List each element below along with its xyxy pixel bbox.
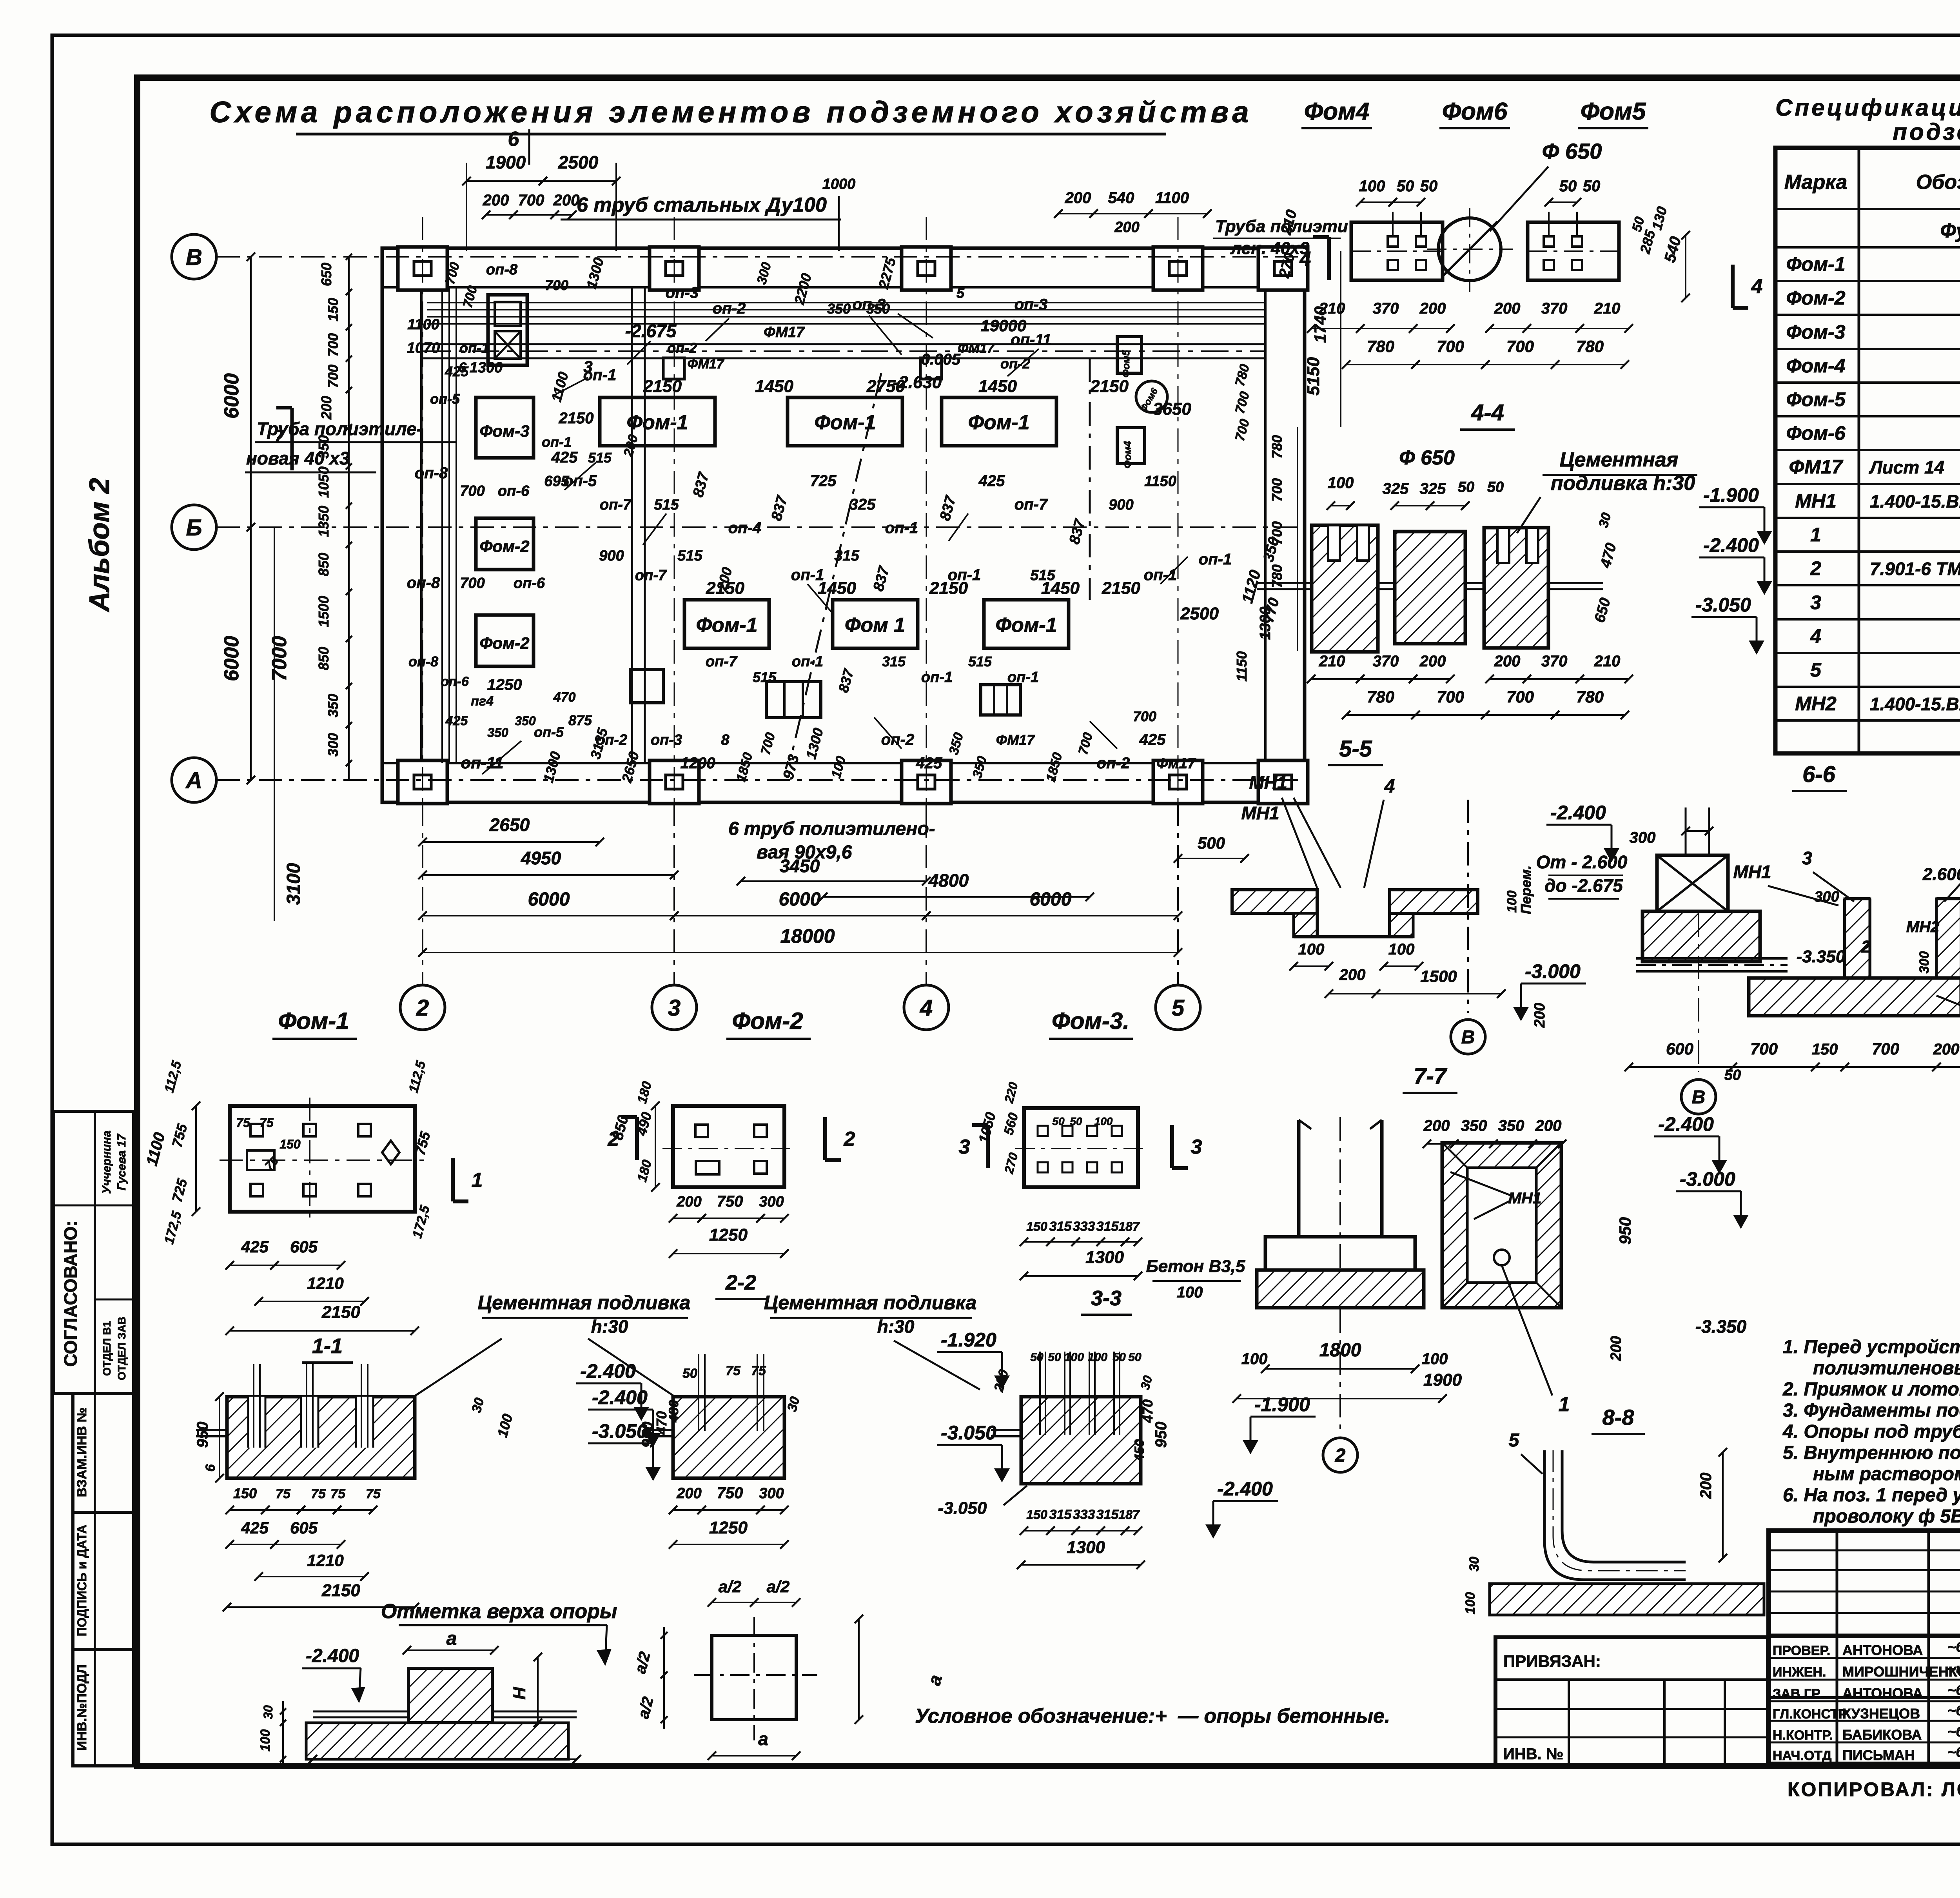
svg-text:780: 780: [1269, 435, 1285, 459]
svg-text:900: 900: [599, 548, 624, 564]
svg-text:780: 780: [1367, 337, 1394, 356]
section 8-8 dim 30: [1463, 1557, 1482, 1614]
label 6 trub stalnyh: [561, 194, 841, 220]
label 3-3: [1081, 1287, 1132, 1315]
svg-text:Лист 14: Лист 14: [1869, 457, 1944, 477]
label otmetka verha opory: [381, 1600, 617, 1666]
Фом-2 left dims: [610, 1080, 660, 1192]
foundation Фом-2 upper: [476, 518, 534, 570]
label F650 top: [1490, 139, 1602, 231]
svg-text:ПРОВЕР.: ПРОВЕР.: [1773, 1643, 1830, 1658]
svg-text:оп-6: оп-6: [441, 674, 469, 689]
section 2-2 side dims: [639, 1400, 681, 1448]
svg-text:-1.920: -1.920: [941, 1329, 996, 1351]
svg-text:7.901-6 ТМ131.05.00: 7.901-6 ТМ131.05.00: [1870, 559, 1960, 579]
svg-text:-2.630: -2.630: [893, 373, 942, 392]
svg-text:3100: 3100: [283, 863, 304, 905]
svg-text:425: 425: [551, 449, 578, 466]
svg-text:оп-1: оп-1: [792, 653, 823, 670]
svg-text:1150: 1150: [1234, 651, 1250, 681]
spec row Фом-2: [1786, 287, 1960, 309]
svg-text:700: 700: [460, 483, 485, 499]
svg-text:Фом-1: Фом-1: [278, 1008, 349, 1034]
dim top right 200 540 1100: [1054, 189, 1212, 236]
svg-text:200: 200: [1608, 1336, 1624, 1361]
Фом-2 plan: [662, 1106, 796, 1187]
section 8-8 label 5: [1509, 1430, 1543, 1474]
svg-text:6000: 6000: [220, 636, 243, 681]
svg-text:210: 210: [1594, 653, 1621, 670]
svg-text:Фом4: Фом4: [1122, 441, 1133, 468]
svg-text:1.400-15.В1 120-23: 1.400-15.В1 120-23: [1870, 694, 1960, 714]
svg-text:350: 350: [827, 301, 851, 317]
svg-text:а: а: [758, 1729, 768, 1749]
svg-text:оп-3: оп-3: [1014, 296, 1047, 313]
svg-text:187: 187: [1118, 1508, 1140, 1522]
Фом-2 bottom dims: [669, 1193, 789, 1258]
svg-text:350: 350: [1461, 1117, 1487, 1134]
svg-text:оп-2: оп-2: [667, 340, 697, 356]
section 8-8 label: [1592, 1405, 1645, 1434]
label 2-2: [715, 1271, 766, 1299]
svg-text:4950: 4950: [521, 848, 561, 868]
svg-text:50: 50: [1583, 178, 1601, 195]
dim right chain: [1234, 251, 1341, 682]
svg-text:~б: ~б: [1947, 1682, 1960, 1698]
svg-text:подземного хозяйства.: подземного хозяйства.: [1893, 119, 1960, 145]
svg-text:оп-2: оп-2: [881, 731, 914, 748]
svg-text:515: 515: [753, 669, 777, 685]
svg-text:210: 210: [1594, 300, 1621, 317]
svg-text:30: 30: [261, 1705, 275, 1719]
section 3-3 side dims: [1132, 1399, 1170, 1462]
section 2-2 top dims: [682, 1363, 803, 1413]
svg-text:6. На поз. 1 перед укладкой на: 6. На поз. 1 перед укладкой навить и при…: [1783, 1485, 1960, 1506]
svg-text:НАЧ.ОТД: НАЧ.ОТД: [1773, 1748, 1831, 1763]
svg-text:4: 4: [1751, 275, 1763, 298]
svg-text:Фундаменты под оборудование.: Фундаменты под оборудование.: [1940, 220, 1960, 242]
spec row 4: [1810, 625, 1960, 647]
svg-text:3: 3: [668, 995, 681, 1021]
section 4-4 top dims: [1327, 446, 1504, 510]
svg-text:325: 325: [849, 496, 876, 513]
svg-text:333: 333: [1073, 1507, 1095, 1522]
signature rows: [1773, 1639, 1960, 1763]
label MN1 corner: [1241, 803, 1279, 823]
section 4-4 pier 2: [1395, 532, 1465, 644]
foundation Фом-1 top 1: [600, 397, 715, 446]
svg-text:2: 2: [1861, 937, 1871, 956]
spec table grid: [1775, 148, 1960, 753]
spec row 1: [1810, 524, 1960, 546]
svg-text:МИРОШНИЧЕНКО: МИРОШНИЧЕНКО: [1842, 1664, 1960, 1680]
section 6-6 pipe: [1636, 958, 1788, 971]
section 5-5 elevations: [1504, 802, 1628, 914]
svg-text:-2.400: -2.400: [592, 1386, 648, 1408]
section mark 4 left: [1299, 237, 1329, 280]
svg-text:50: 50: [1458, 479, 1474, 495]
dims sides fom456: [1276, 205, 1690, 302]
svg-text:МН1: МН1: [1508, 1190, 1541, 1207]
svg-text:-2.400: -2.400: [580, 1360, 636, 1382]
svg-text:2150: 2150: [321, 1303, 360, 1322]
foundation Фом-3: [476, 397, 534, 458]
svg-text:ПОДПИСЬ и ДАТА: ПОДПИСЬ и ДАТА: [75, 1525, 89, 1637]
svg-text:1100: 1100: [1155, 189, 1189, 207]
svg-text:Фом-3.: Фом-3.: [1052, 1008, 1129, 1034]
svg-text:а: а: [446, 1628, 457, 1649]
svg-text:Н.КОНТР.: Н.КОНТР.: [1773, 1728, 1833, 1743]
Фом-1 bottom dims: [225, 1238, 419, 1335]
svg-text:АНТОНОВА: АНТОНОВА: [1842, 1642, 1923, 1658]
svg-text:ФМ17: ФМ17: [764, 324, 805, 341]
foundation Фом-1 top 2: [788, 397, 902, 446]
spec row ФМ17: [1789, 456, 1960, 478]
section 2-2 block: [643, 1354, 784, 1478]
privyazan box: [1495, 1637, 1768, 1766]
svg-text:370: 370: [1373, 300, 1399, 317]
svg-text:Фом-1: Фом-1: [995, 614, 1057, 637]
label 1-1: [302, 1334, 353, 1363]
svg-text:700: 700: [1269, 478, 1285, 502]
svg-text:КОПИРОВАЛ: ЛОГИНОВА: КОПИРОВАЛ: ЛОГИНОВА: [1788, 1778, 1960, 1800]
pipe run vertical: [632, 289, 645, 763]
svg-text:605: 605: [290, 1238, 318, 1256]
svg-text:оп-1: оп-1: [791, 566, 824, 584]
svg-text:ИНЖЕН.: ИНЖЕН.: [1773, 1665, 1826, 1680]
dim left 6000 6000: [220, 252, 304, 921]
svg-text:В: В: [186, 245, 202, 270]
svg-text:3: 3: [1810, 592, 1821, 613]
dims below fom456 row1: [1307, 300, 1633, 333]
svg-text:470: 470: [553, 690, 576, 705]
svg-text:695: 695: [544, 473, 569, 490]
svg-text:Фом6: Фом6: [1442, 98, 1508, 125]
svg-text:150: 150: [1026, 1508, 1047, 1522]
svg-text:950: 950: [1152, 1422, 1170, 1448]
svg-text:а/2: а/2: [767, 1577, 789, 1596]
svg-text:Н: Н: [510, 1687, 529, 1700]
svg-text:ИНВ. №: ИНВ. №: [1503, 1746, 1563, 1763]
section 4-4 bottom dims: [1307, 653, 1633, 719]
svg-text:оп-1: оп-1: [542, 434, 572, 450]
svg-text:7-7: 7-7: [1414, 1063, 1448, 1089]
svg-text:оп-1: оп-1: [921, 669, 953, 686]
svg-text:оп-8: оп-8: [408, 653, 438, 670]
svg-text:50: 50: [1559, 178, 1577, 195]
svg-text:200: 200: [1697, 1473, 1715, 1499]
svg-text:АНТОНОВА: АНТОНОВА: [1842, 1685, 1923, 1701]
svg-text:100: 100: [1241, 1350, 1268, 1368]
svg-text:50: 50: [1070, 1115, 1082, 1127]
svg-text:1500: 1500: [316, 596, 332, 627]
section 5-5 axis: [1451, 800, 1485, 1054]
svg-text:А: А: [185, 768, 202, 793]
svg-text:ным раствором.: ным раствором.: [1813, 1464, 1960, 1484]
general notes: [1782, 1337, 1960, 1527]
svg-text:8: 8: [721, 732, 730, 748]
section 7-7 base: [1257, 1270, 1424, 1308]
svg-text:оп-5: оп-5: [534, 724, 564, 740]
label Fom4: [1301, 98, 1372, 128]
svg-text:1210: 1210: [307, 1551, 343, 1570]
svg-text:725: 725: [810, 472, 837, 490]
label Фом-2 detail: [726, 1008, 811, 1039]
section 7-7 dims: [1232, 1340, 1462, 1454]
svg-text:100: 100: [1088, 1351, 1107, 1364]
section mark 3 left: [959, 1125, 988, 1168]
svg-text:Гусева 17: Гусева 17: [115, 1134, 128, 1190]
svg-text:МН1: МН1: [1733, 862, 1771, 882]
pipe drop right: [1089, 358, 1091, 600]
pipe run diagonal: [790, 373, 881, 760]
svg-text:2. Приямок и лоток выполнить и: 2. Приямок и лоток выполнить из бетона к…: [1782, 1379, 1960, 1400]
svg-text:200: 200: [1532, 1003, 1548, 1028]
svg-text:2: 2: [844, 1128, 855, 1150]
section 5-5 labels: [1249, 772, 1395, 888]
svg-text:325: 325: [1420, 480, 1446, 497]
svg-text:Ф 650: Ф 650: [1542, 139, 1602, 163]
svg-text:50: 50: [682, 1366, 697, 1381]
spec row Фом-3: [1786, 321, 1960, 343]
svg-text:350: 350: [487, 726, 508, 740]
svg-text:780: 780: [1576, 337, 1604, 356]
svg-text:700: 700: [1437, 337, 1464, 356]
svg-text:18000: 18000: [780, 925, 835, 947]
foundation Фом-1 top 3: [942, 397, 1056, 446]
svg-text:3: 3: [583, 357, 592, 376]
svg-text:6 труб полиэтилено-: 6 труб полиэтилено-: [728, 818, 935, 839]
svg-text:200: 200: [1339, 966, 1366, 983]
svg-text:2500: 2500: [1180, 604, 1219, 623]
section mark 3 right: [1172, 1125, 1202, 1168]
svg-text:1900: 1900: [486, 152, 526, 172]
svg-text:100: 100: [258, 1729, 273, 1752]
svg-text:оп-5: оп-5: [430, 391, 460, 407]
box Фом4: [1117, 428, 1145, 468]
small block ФМ17 a: [630, 670, 663, 703]
svg-text:оп-7: оп-7: [706, 653, 738, 670]
label Фом-1 detail: [272, 1008, 357, 1039]
svg-text:1250: 1250: [487, 676, 522, 693]
section 7-7 cap: [1265, 1237, 1415, 1270]
svg-text:1300: 1300: [1085, 1248, 1124, 1267]
svg-text:оп-8: оп-8: [415, 465, 448, 482]
svg-text:БАБИКОВА: БАБИКОВА: [1842, 1727, 1922, 1743]
svg-text:Фом-2: Фом-2: [480, 537, 530, 555]
small square a: [663, 358, 684, 379]
section mark 7 left: [274, 408, 292, 470]
svg-text:100: 100: [1064, 1351, 1084, 1364]
section 6-6 elevations: [1513, 843, 1960, 1028]
svg-text:515: 515: [968, 653, 992, 670]
svg-text:50: 50: [1724, 1067, 1741, 1083]
svg-text:оп-2: оп-2: [1000, 356, 1030, 372]
svg-text:~б: ~б: [1947, 1724, 1960, 1740]
section 3-3 block: [991, 1352, 1141, 1484]
section 3-3 top dims: [991, 1351, 1155, 1394]
svg-text:От - 2.600: От - 2.600: [1536, 852, 1628, 872]
svg-text:-3.000: -3.000: [1525, 960, 1581, 982]
svg-text:оп-8: оп-8: [486, 261, 518, 278]
dim bottom 6000x3: [418, 889, 1182, 920]
svg-text:оп-1: оп-1: [1007, 669, 1039, 686]
title block grid: [1769, 1531, 1960, 1764]
podpis data box: [73, 1512, 134, 1649]
svg-text:ФМ17: ФМ17: [996, 732, 1036, 748]
svg-text:ИНВ.№ПОДЛ: ИНВ.№ПОДЛ: [74, 1664, 89, 1750]
dim 1000 top: [822, 176, 856, 251]
svg-text:150: 150: [1812, 1041, 1838, 1058]
steel pipes run: [427, 303, 1266, 324]
svg-text:850: 850: [316, 553, 332, 576]
svg-text:150: 150: [233, 1485, 257, 1501]
svg-text:2500: 2500: [558, 152, 599, 172]
section 5-5 slab left: [1232, 890, 1317, 913]
svg-text:1300: 1300: [470, 359, 503, 376]
svg-text:50: 50: [1112, 1351, 1126, 1364]
label Fom5: [1578, 98, 1648, 128]
spec row 3: [1810, 592, 1960, 613]
svg-text:210: 210: [1319, 300, 1345, 317]
svg-text:ПИСЬМАН: ПИСЬМАН: [1842, 1747, 1915, 1763]
svg-text:СОГЛАСОВАНО:: СОГЛАСОВАНО:: [60, 1220, 81, 1366]
svg-text:370: 370: [1373, 653, 1399, 670]
svg-text:150: 150: [279, 1137, 301, 1151]
vzam inv box: [73, 1394, 134, 1512]
svg-text:2150: 2150: [321, 1581, 360, 1600]
dim chain top 200 700 200: [482, 192, 579, 219]
svg-text:Фом-1: Фом-1: [814, 411, 876, 434]
svg-text:оп-11: оп-11: [1011, 331, 1051, 348]
svg-text:Фом-3: Фом-3: [1786, 321, 1845, 343]
svg-text:200: 200: [1114, 219, 1139, 236]
poly pipes run vertical: [442, 289, 456, 763]
dim bottom 4950: [418, 848, 679, 879]
svg-text:вая 90х9,6: вая 90х9,6: [757, 842, 852, 863]
spec table title: [1775, 94, 1960, 145]
Фом-1 inner dims: [236, 1116, 301, 1173]
svg-text:200: 200: [1933, 1041, 1960, 1058]
svg-text:150: 150: [325, 298, 341, 321]
label Fom6: [1439, 98, 1510, 128]
svg-text:Схема расположения элементов п: Схема расположения элементов подземного …: [209, 96, 1252, 129]
album label: [84, 478, 115, 612]
section 1-1 side dims: [194, 1392, 224, 1482]
svg-text:МН1: МН1: [1249, 772, 1287, 793]
svg-text:Фом-5: Фом-5: [1786, 388, 1846, 410]
svg-text:оп-7: оп-7: [600, 497, 632, 513]
section 7-7 lower elevation: [1205, 1478, 1278, 1539]
svg-text:h:30: h:30: [877, 1316, 915, 1337]
detail Fom4-6-5 circle: [1427, 208, 1513, 292]
svg-text:— опоры бетонные.: — опоры бетонные.: [1178, 1705, 1390, 1727]
foundation Фом-1 bottom 3: [984, 600, 1069, 648]
svg-text:315: 315: [1049, 1507, 1072, 1522]
svg-text:МН1: МН1: [1795, 490, 1837, 512]
svg-text:50: 50: [1487, 479, 1504, 495]
pit plan anchor: [1494, 1250, 1570, 1416]
privyazan label: [1503, 1652, 1601, 1670]
svg-text:500: 500: [1198, 834, 1225, 852]
pit plan elevations: [1608, 1113, 1749, 1361]
section mark 1: [453, 1158, 483, 1201]
svg-text:2: 2: [416, 995, 429, 1021]
svg-text:200: 200: [676, 1194, 701, 1210]
svg-text:6000: 6000: [220, 373, 243, 419]
svg-text:3: 3: [959, 1136, 970, 1158]
svg-text:-2.400: -2.400: [1703, 534, 1759, 556]
svg-text:100: 100: [1094, 1115, 1113, 1127]
svg-text:1000: 1000: [822, 176, 856, 192]
label truba polyethylene right: [1213, 217, 1348, 258]
svg-text:700: 700: [518, 192, 544, 209]
svg-text:4-4: 4-4: [1471, 400, 1504, 425]
section 4-4 pier 1: [1312, 525, 1378, 652]
section mark 2 right: [825, 1117, 855, 1160]
small square b: [920, 358, 942, 379]
svg-text:1500: 1500: [1420, 967, 1457, 985]
svg-text:Обозначение: Обозначение: [1916, 171, 1960, 194]
svg-text:оп-4: оп-4: [728, 519, 761, 537]
svg-text:210: 210: [1319, 653, 1345, 670]
svg-text:-2.400: -2.400: [1550, 802, 1606, 824]
svg-text:200: 200: [1423, 1117, 1450, 1134]
svg-text:а/2: а/2: [719, 1577, 741, 1596]
svg-text:5: 5: [1509, 1430, 1520, 1451]
svg-text:700: 700: [1872, 1040, 1899, 1058]
svg-text:6000: 6000: [528, 889, 570, 910]
svg-text:Отметка верха опоры: Отметка верха опоры: [381, 1600, 617, 1623]
svg-text:300: 300: [325, 733, 341, 757]
label truba poly left: [245, 419, 457, 472]
section 5-5 slab right: [1390, 890, 1478, 913]
section 6-6 labels: [1630, 827, 1960, 1038]
svg-text:1250: 1250: [709, 1225, 748, 1245]
svg-text:2150: 2150: [643, 377, 682, 396]
svg-text:300: 300: [1630, 829, 1656, 846]
dims above left footing: [1356, 178, 1600, 207]
svg-text:700: 700: [325, 365, 341, 388]
svg-text:оп-1: оп-1: [459, 340, 489, 356]
svg-text:50: 50: [1128, 1351, 1142, 1364]
dim bottom 4800: [819, 870, 1094, 901]
svg-text:Б: Б: [186, 515, 202, 541]
spec row МН1: [1795, 490, 1960, 512]
svg-text:50: 50: [1048, 1351, 1061, 1364]
svg-text:ОТДЕЛ ЗАВ: ОТДЕЛ ЗАВ: [116, 1317, 128, 1380]
Фом-1 left dims: [143, 1059, 434, 1246]
spec row МН2: [1795, 693, 1960, 715]
svg-text:780: 780: [1367, 688, 1394, 706]
svg-text:1210: 1210: [307, 1274, 343, 1292]
svg-text:450: 450: [1132, 1439, 1147, 1462]
svg-text:300: 300: [759, 1485, 784, 1502]
svg-text:1450: 1450: [978, 377, 1017, 396]
svg-text:200: 200: [1535, 1117, 1562, 1134]
svg-text:-2.400: -2.400: [1217, 1478, 1273, 1500]
svg-text:оп-6: оп-6: [514, 575, 545, 592]
pit plan MN1: [1450, 1172, 1541, 1219]
svg-text:2-2: 2-2: [725, 1271, 756, 1294]
svg-text:-3.050: -3.050: [1695, 594, 1751, 616]
svg-text:2: 2: [608, 1128, 619, 1150]
svg-text:~и: ~и: [1947, 1660, 1960, 1677]
foundation Фом 1 bottom 2: [833, 600, 918, 648]
building walls: [382, 248, 1305, 802]
svg-text:ФМ17: ФМ17: [958, 341, 995, 356]
inv no label: [1503, 1746, 1563, 1763]
